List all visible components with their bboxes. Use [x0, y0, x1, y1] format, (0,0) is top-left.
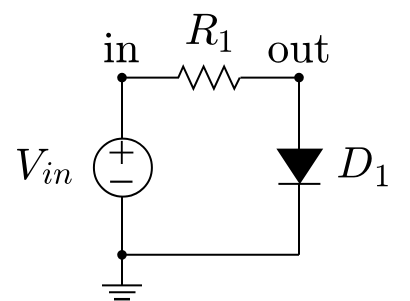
label out: [269, 35, 329, 63]
label in: [104, 33, 138, 62]
wire: diode to bottom corner: [298, 184, 300, 255]
plus sign: [110, 152, 134, 154]
label R1: [186, 14, 231, 52]
label Vin: [17, 149, 72, 184]
wire: voltage source to bottom junction: [121, 196, 123, 254]
diode D1: [277, 149, 322, 184]
minus sign: [110, 181, 132, 183]
node in: [117, 73, 127, 83]
label D1: [338, 147, 388, 186]
wire: node in down to voltage source: [121, 78, 123, 139]
wire: node in to resistor: [122, 77, 179, 79]
ground: [102, 255, 142, 299]
wire: bottom horizontal: [122, 254, 299, 256]
node: bottom junction: [117, 250, 127, 260]
voltage source Vin: [94, 139, 152, 197]
wire: node out down to diode: [298, 78, 300, 150]
resistor R1: [178, 67, 240, 89]
node out: [294, 73, 304, 83]
wire: resistor to node out: [241, 77, 300, 79]
